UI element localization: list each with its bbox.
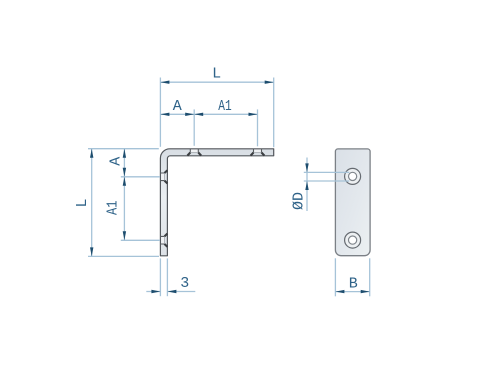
- countersunk hole H3 side view (vertical arm): [160, 170, 167, 183]
- dim line L left vertical: [91, 149, 93, 257]
- ext line OD bottom horizontal y=181: [304, 180, 350, 182]
- ext line thickness left x=160.4: [159, 258, 161, 296]
- ext line left hole2 horizontal y=240.3: [121, 239, 160, 241]
- arrow L top right: [265, 81, 274, 84]
- ext line OD top horizontal y=172.4: [304, 171, 350, 173]
- svg-text:A: A: [107, 157, 124, 166]
- svg-text:L: L: [74, 198, 91, 207]
- arrow L left top: [90, 149, 93, 158]
- arrow A1 left (at hole1): [194, 113, 203, 116]
- arrow 3 left pointing right: [151, 290, 160, 293]
- dim line 3 right segment: [167, 291, 195, 293]
- arrow A1 right (at hole2): [249, 113, 258, 116]
- ext line top-right vertical x=273.7: [273, 78, 275, 148]
- dim line 3 left segment: [146, 291, 160, 293]
- arrow 3 right pointing left: [167, 290, 176, 293]
- ext line top-left vertical x=160.4: [159, 78, 161, 147]
- ext line B left x=335.4: [334, 258, 336, 296]
- bracket side view (L profile): [160, 149, 273, 256]
- ext line left hole1 horizontal y=176.8: [121, 176, 160, 178]
- ext line hole2 vertical x=257.5: [257, 109, 259, 146]
- countersunk hole H4 side view (vertical arm): [160, 234, 167, 247]
- svg-text:A: A: [173, 98, 182, 115]
- svg-text:B: B: [349, 276, 358, 293]
- arrow A1 vert top: [123, 177, 126, 186]
- svg-text:3: 3: [180, 275, 189, 292]
- ext line left bottom horizontal y=256.4: [88, 255, 159, 257]
- plate hole top: countersink outer circle: [345, 168, 361, 184]
- plate hole top: bore inner circle: [349, 172, 357, 180]
- svg-text:L: L: [212, 66, 221, 83]
- arrow L left bottom: [90, 247, 93, 256]
- arrow A vert bottom: [123, 168, 126, 177]
- arrow A1 vert bottom: [123, 231, 126, 240]
- dim line OD vertical x=307: [306, 158, 308, 212]
- arrow A right (at hole1): [185, 113, 194, 116]
- ext line left top horizontal y=149.4: [88, 148, 159, 150]
- ext line thickness right x=167.4: [166, 258, 168, 296]
- dim line B: [335, 291, 369, 293]
- arrowheads: [90, 81, 370, 294]
- arrow B left pointing left: [335, 290, 344, 293]
- ext line B right x=369.7: [369, 258, 371, 296]
- arrow A vert top: [123, 149, 126, 158]
- arrow B right pointing right: [361, 290, 370, 293]
- svg-text:A1: A1: [105, 201, 122, 216]
- arrow L top left: [160, 81, 169, 84]
- dimension lines group: [88, 78, 370, 297]
- plate front view: [335, 149, 370, 256]
- arrow A left: [160, 113, 169, 116]
- countersunk hole H1 side view (top arm): [187, 149, 201, 156]
- arrow OD bottom pointing up: [305, 181, 308, 190]
- countersunk hole H2 side view (top arm): [251, 149, 265, 156]
- svg-text:ØD: ØD: [291, 192, 308, 210]
- dim line L top: [160, 81, 273, 83]
- ext line hole1 vertical x=194.2: [193, 109, 195, 145]
- arrow OD top pointing down: [305, 163, 308, 172]
- plate hole bottom: countersink outer circle: [345, 232, 361, 248]
- svg-text:A1: A1: [218, 98, 231, 115]
- dim line A + A1 left vertical: [123, 149, 125, 241]
- plate hole bottom: bore inner circle: [349, 236, 357, 244]
- dim line A/A1: [160, 113, 257, 115]
